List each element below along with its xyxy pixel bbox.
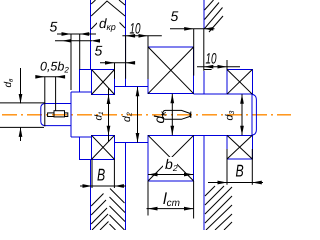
svg-text:5: 5 bbox=[95, 43, 103, 59]
svg-text:B: B bbox=[97, 165, 105, 184]
svg-text:B: B bbox=[236, 161, 244, 180]
svg-text:5: 5 bbox=[171, 8, 179, 24]
svg-text:10: 10 bbox=[206, 51, 217, 68]
svg-text:5: 5 bbox=[50, 19, 58, 35]
svg-text:10: 10 bbox=[130, 21, 141, 38]
